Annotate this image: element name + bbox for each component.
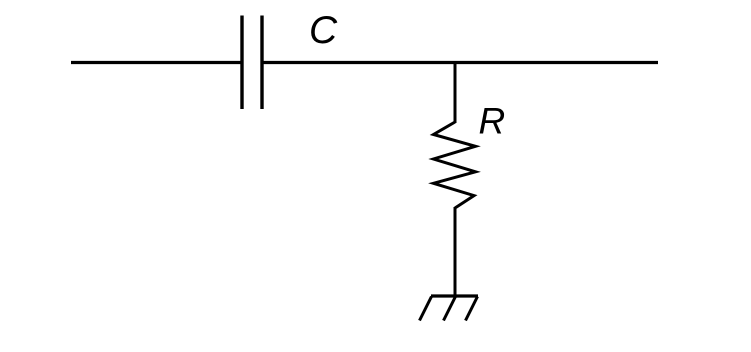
wire: vertical segment from resistor down to ground: [454, 207, 457, 296]
ground: [420, 296, 479, 321]
svg-text:R: R: [479, 101, 506, 142]
svg-text:C: C: [309, 9, 338, 52]
capacitor C: [242, 16, 262, 110]
resistor R: [434, 122, 476, 208]
wire: vertical segment from node down to resistor R: [454, 63, 457, 124]
wire: right horizontal segment from capacitor to output: [262, 61, 658, 64]
wire: left horizontal segment from input to capacitor: [71, 61, 242, 64]
